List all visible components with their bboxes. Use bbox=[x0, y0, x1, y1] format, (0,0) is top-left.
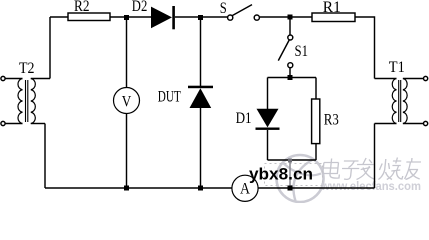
svg-text:R1: R1 bbox=[323, 0, 341, 16]
svg-text:R3: R3 bbox=[324, 112, 339, 129]
svg-text:S1: S1 bbox=[295, 43, 309, 60]
svg-text:DUT: DUT bbox=[158, 89, 181, 106]
svg-text:S: S bbox=[220, 0, 227, 17]
svg-text:D2: D2 bbox=[132, 0, 148, 15]
svg-text:T1: T1 bbox=[389, 59, 405, 76]
svg-text:T2: T2 bbox=[19, 60, 35, 77]
svg-text:V: V bbox=[122, 93, 132, 110]
svg-text:ybx8.cn: ybx8.cn bbox=[249, 165, 313, 184]
svg-text:www.elecfans.com: www.elecfans.com bbox=[320, 179, 421, 193]
svg-text:D1: D1 bbox=[236, 110, 252, 127]
svg-text:R2: R2 bbox=[74, 0, 90, 15]
